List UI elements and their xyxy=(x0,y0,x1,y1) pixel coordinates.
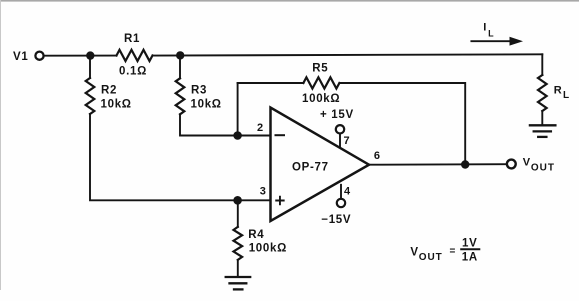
formula VOUT = 1V/1A xyxy=(410,237,478,263)
wire R1 to RL corner xyxy=(153,54,543,55)
wire C to pin2 xyxy=(238,135,270,137)
svg-text:R3: R3 xyxy=(191,84,207,96)
resistor RL xyxy=(538,75,547,111)
current IL arrow xyxy=(471,37,523,46)
wire D to pin3 xyxy=(238,199,270,201)
pin 7 stub xyxy=(339,134,341,147)
resistor R2 xyxy=(86,78,95,114)
wire R2 to node D xyxy=(90,114,238,200)
svg-text:10kΩ: 10kΩ xyxy=(191,98,222,110)
svg-text:VOUT: VOUT xyxy=(410,246,442,263)
svg-text:3: 3 xyxy=(260,186,267,198)
pin 4 terminal xyxy=(337,199,345,207)
top border line xyxy=(0,0,579,2)
node C junction xyxy=(234,132,242,140)
pin 4 stub xyxy=(340,185,342,199)
wire A down to R2 xyxy=(89,56,91,78)
wire R4 to ground xyxy=(237,260,239,277)
node D junction xyxy=(234,197,242,205)
op-amp plus input xyxy=(276,197,284,205)
wire B down to R3 xyxy=(179,56,181,79)
left border line xyxy=(0,0,1,290)
node E junction xyxy=(462,161,469,168)
wire R5 loop left xyxy=(238,82,304,84)
svg-text:10kΩ: 10kΩ xyxy=(101,98,132,110)
svg-text:100kΩ: 100kΩ xyxy=(249,243,287,255)
resistor R4 xyxy=(234,227,243,260)
resistor R1 xyxy=(117,50,153,61)
svg-text:IL: IL xyxy=(483,22,494,39)
wire V1 to node A xyxy=(44,55,117,57)
wire down to RL xyxy=(541,54,543,75)
resistor R5 xyxy=(303,77,339,88)
formula fraction bar xyxy=(461,248,479,250)
svg-text:R5: R5 xyxy=(312,63,328,75)
ground (R4) xyxy=(226,277,251,289)
svg-text:OP-77: OP-77 xyxy=(292,162,329,174)
ground (RL) xyxy=(530,125,556,137)
svg-text:+ 15V: + 15V xyxy=(320,109,354,121)
svg-text:1A: 1A xyxy=(462,252,478,264)
svg-text:VOUT: VOUT xyxy=(523,157,555,174)
pin 7 terminal xyxy=(336,125,344,133)
terminal V1 xyxy=(35,52,43,60)
svg-text:R1: R1 xyxy=(124,33,140,45)
wire output xyxy=(369,163,507,166)
svg-text:−15V: −15V xyxy=(321,214,351,226)
wire RL to ground xyxy=(541,111,543,125)
svg-text:V1: V1 xyxy=(13,51,28,63)
terminal VOUT xyxy=(507,160,516,169)
svg-text:4: 4 xyxy=(344,185,351,197)
svg-text:=: = xyxy=(450,246,457,257)
node A junction xyxy=(87,52,94,59)
svg-text:1V: 1V xyxy=(462,237,477,249)
wire D down to R4 xyxy=(237,200,239,227)
svg-text:100kΩ: 100kΩ xyxy=(302,93,340,105)
node B junction xyxy=(177,52,184,59)
op-amp minus input xyxy=(276,134,285,136)
svg-text:R4: R4 xyxy=(248,229,264,241)
op-amp U1 OP-77 xyxy=(271,108,370,222)
wire C up to R5 loop xyxy=(237,83,239,136)
wire R5 loop right xyxy=(339,83,465,165)
svg-text:0.1Ω: 0.1Ω xyxy=(119,66,147,78)
svg-text:R2: R2 xyxy=(101,84,117,96)
svg-text:2: 2 xyxy=(257,122,264,134)
wire R3 to node C xyxy=(180,114,238,135)
svg-text:7: 7 xyxy=(344,135,351,147)
svg-text:6: 6 xyxy=(374,150,381,162)
resistor R3 xyxy=(176,78,185,114)
svg-text:RL: RL xyxy=(554,84,570,101)
